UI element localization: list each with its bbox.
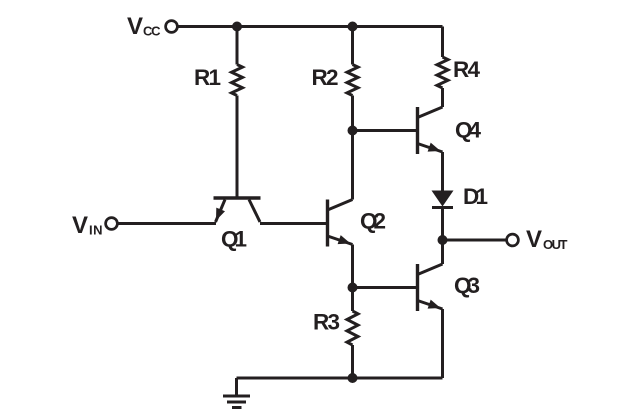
wire Vin to Q1 emitter [118, 222, 217, 225]
wire Vout node to Q3 collector [441, 240, 444, 264]
terminal Vin [106, 218, 118, 230]
svg-text:D1: D1 [463, 184, 488, 209]
wire Vout node to terminal [443, 239, 507, 242]
wire top-right corner down to R4 [441, 27, 444, 58]
svg-text:R2: R2 [312, 65, 339, 90]
node junction Q2 emitter / Q3 base / R3 [348, 283, 358, 293]
node junction Vcc-R1 [232, 22, 242, 32]
wire Q2 emitter down to node [351, 245, 354, 288]
svg-text:Q3: Q3 [454, 273, 480, 298]
svg-text:R1: R1 [194, 65, 221, 90]
wire Q2 base from Q1 collector [260, 222, 328, 225]
transistor Q3 [418, 264, 443, 311]
node junction R3 / bottom rail [348, 373, 358, 383]
diode D1 [432, 191, 454, 241]
wire R1 bottom to Q1 base [236, 96, 239, 197]
svg-text:IN: IN [89, 223, 103, 238]
svg-text:V: V [72, 212, 88, 239]
wire top rail [178, 25, 443, 28]
wire Q3 base from node [353, 286, 418, 289]
transistor Q2 [328, 200, 353, 247]
transistor Q4 [418, 107, 443, 154]
resistor R2 [347, 65, 358, 96]
node junction R2-Q4 base [348, 126, 358, 136]
wire node R2/Q4-base to Q4 base [353, 129, 418, 132]
wire Q4 emitter to D1 anode [441, 152, 444, 191]
svg-text:CC: CC [143, 24, 161, 39]
terminal Vout [507, 234, 519, 246]
node junction Vcc-R2 [348, 22, 358, 32]
svg-text:OUT: OUT [543, 237, 568, 252]
svg-text:Q2: Q2 [360, 209, 386, 234]
wire bottom rail [237, 377, 443, 380]
svg-text:Q4: Q4 [455, 118, 481, 143]
wire R4 bottom to Q4 collector [441, 88, 444, 107]
wire R2 top [351, 27, 354, 65]
svg-text:R4: R4 [453, 57, 480, 82]
wire R3 bottom [351, 345, 354, 378]
svg-text:V: V [127, 13, 143, 40]
svg-text:V: V [526, 226, 542, 253]
resistor R4 [437, 57, 448, 88]
wire Q3 emitter down to bottom rail [441, 309, 444, 378]
resistor R3 [347, 311, 358, 345]
svg-text:Q1: Q1 [221, 227, 247, 252]
node Vout junction [438, 235, 448, 245]
svg-text:R3: R3 [313, 310, 340, 335]
resistor R1 [232, 65, 243, 96]
wire R1 top [236, 27, 239, 65]
transistor Q1 [214, 198, 261, 222]
wire node to R3 [351, 288, 354, 312]
terminal Vcc [166, 21, 178, 33]
wire R2 bottom to Q2 collector [351, 96, 354, 200]
ground [223, 378, 250, 408]
